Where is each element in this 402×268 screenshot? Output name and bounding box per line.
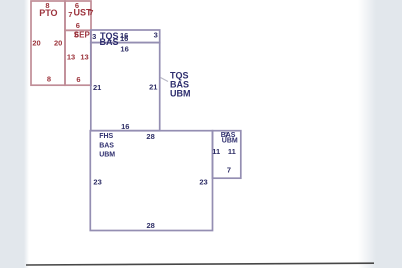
svg-text:FHS: FHS: [99, 133, 113, 140]
svg-text:28: 28: [147, 221, 155, 230]
room UST outline: [65, 1, 91, 30]
area BAS/UBM small right box outline: [213, 131, 241, 179]
svg-text:20: 20: [54, 38, 62, 47]
area FHS/BAS/UBM lower box outline: [90, 131, 212, 231]
dark bottom rule of sketch panel: [26, 263, 374, 265]
room SEP outline: [65, 30, 91, 85]
svg-text:7: 7: [227, 165, 231, 174]
svg-text:13: 13: [67, 53, 75, 62]
svg-text:16: 16: [120, 34, 128, 43]
svg-text:16: 16: [121, 122, 129, 131]
svg-text:28: 28: [146, 132, 154, 141]
svg-text:3: 3: [92, 32, 96, 41]
svg-text:21: 21: [149, 83, 157, 92]
svg-text:8: 8: [47, 75, 51, 84]
area TQS/BAS top strip outline: [91, 30, 160, 43]
svg-text:7: 7: [68, 10, 72, 19]
left gray margin band: [0, 0, 24, 268]
svg-text:UBM: UBM: [222, 138, 238, 145]
svg-text:21: 21: [93, 83, 101, 92]
right gray margin band: [376, 0, 402, 268]
svg-text:UBM: UBM: [170, 89, 191, 99]
svg-text:SEP: SEP: [74, 30, 91, 39]
svg-text:11: 11: [228, 147, 236, 156]
svg-text:PTO: PTO: [39, 8, 57, 18]
svg-text:3: 3: [154, 31, 158, 40]
svg-text:6: 6: [76, 75, 80, 84]
svg-text:20: 20: [32, 38, 40, 47]
svg-text:11: 11: [212, 147, 220, 156]
svg-text:BAS: BAS: [99, 142, 114, 149]
svg-text:BAS: BAS: [100, 37, 119, 47]
svg-text:23: 23: [199, 178, 207, 187]
leader line to TQS BAS UBM label: [161, 78, 169, 82]
svg-text:6: 6: [76, 21, 80, 30]
svg-text:13: 13: [80, 53, 88, 62]
area TQS/BAS/UBM main box outline: [91, 43, 160, 131]
svg-text:UST: UST: [74, 8, 93, 18]
room PTO outline: [31, 1, 65, 85]
svg-text:16: 16: [120, 45, 128, 54]
svg-text:UBM: UBM: [99, 152, 115, 159]
svg-text:23: 23: [93, 178, 101, 187]
